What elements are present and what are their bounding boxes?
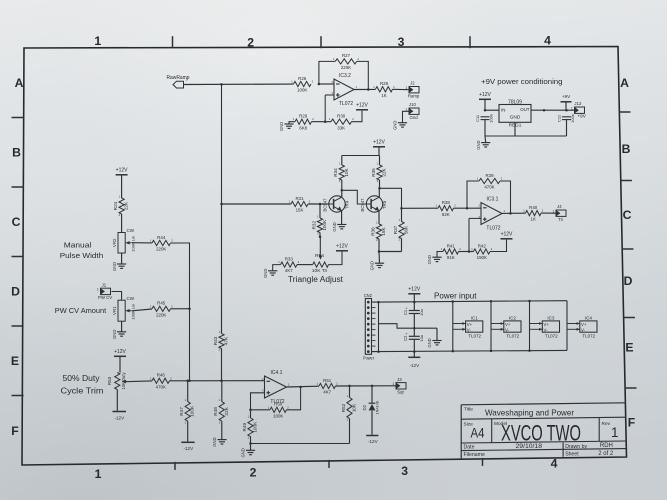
IC block IC2 TL072 — [504, 316, 521, 339]
junction — [299, 386, 302, 389]
potentiometer VR1 — [112, 296, 136, 321]
svg-text:-12V: -12V — [114, 415, 125, 420]
column labels bottom — [95, 457, 558, 481]
wire — [121, 321, 123, 332]
power +9V — [561, 94, 572, 102]
svg-text:J4: J4 — [557, 204, 562, 209]
svg-text:470K: 470K — [156, 384, 166, 389]
svg-text:R24: R24 — [113, 201, 118, 210]
wire — [312, 121, 332, 123]
power +12V — [408, 287, 421, 294]
resistor R34 — [333, 161, 349, 183]
svg-text:GND: GND — [510, 115, 521, 121]
svg-text:R47: R47 — [179, 407, 184, 416]
junction — [377, 350, 380, 353]
resistor R36 — [370, 220, 386, 242]
wire — [342, 190, 366, 204]
node RawRamp — [167, 75, 190, 88]
resistor R27 — [333, 53, 359, 70]
wire — [500, 181, 511, 213]
svg-text:10K: 10K — [352, 403, 357, 412]
wire — [484, 120, 486, 136]
resistor R44 — [150, 235, 174, 252]
wire — [468, 218, 470, 251]
svg-text:Drawn by: Drawn by — [565, 444, 587, 450]
resistor R28 — [373, 81, 395, 98]
wire R44 to bus — [171, 243, 190, 309]
ground — [427, 255, 441, 264]
svg-text:R44: R44 — [157, 235, 166, 240]
power -12V — [181, 442, 194, 451]
wire — [187, 381, 189, 402]
resistor R35 — [371, 161, 387, 183]
svg-text:J2: J2 — [410, 81, 415, 86]
wire — [352, 111, 363, 122]
svg-text:R54: R54 — [315, 253, 324, 259]
wire — [378, 211, 380, 224]
svg-text:R29: R29 — [299, 114, 308, 119]
wire — [413, 294, 415, 302]
wire — [308, 203, 329, 205]
resistor R30 — [329, 114, 355, 131]
power +12V — [501, 232, 514, 239]
svg-text:R42: R42 — [478, 243, 487, 248]
svg-text:IC3: IC3 — [547, 316, 555, 321]
wire — [413, 314, 415, 337]
svg-text:R35: R35 — [371, 168, 376, 177]
svg-text:Title: Title — [464, 407, 473, 413]
svg-text:IC1: IC1 — [471, 316, 479, 321]
svg-text:Manual: Manual — [64, 241, 92, 250]
junction — [468, 250, 471, 253]
wire — [116, 390, 118, 411]
wire — [349, 386, 351, 398]
wire — [170, 380, 265, 382]
wire — [341, 180, 343, 190]
svg-text:-12V: -12V — [183, 446, 194, 451]
junction — [377, 301, 380, 304]
wire — [119, 356, 121, 372]
svg-text:GND: GND — [476, 140, 481, 149]
svg-text:1: 1 — [95, 467, 102, 481]
svg-text:F: F — [11, 424, 18, 438]
wire — [222, 203, 292, 205]
svg-text:78L09: 78L09 — [508, 100, 522, 106]
wire — [401, 208, 403, 221]
connector J10 Gnd — [406, 102, 419, 120]
junction — [188, 380, 191, 383]
title block — [461, 403, 626, 460]
wire IC4 power vertical — [566, 301, 568, 351]
ground — [112, 330, 126, 339]
wire — [184, 83, 294, 85]
svg-text:D: D — [624, 274, 633, 288]
svg-text:4: 4 — [551, 457, 558, 471]
svg-text:R45: R45 — [157, 301, 166, 306]
svg-text:C: C — [623, 208, 632, 222]
wire CN2 pin stubs — [372, 302, 376, 352]
wire — [341, 211, 343, 224]
svg-text:100K: 100K — [253, 421, 258, 433]
resistor R42 — [471, 243, 493, 260]
wire — [319, 204, 321, 218]
op-amp IC3.2 — [331, 73, 357, 107]
diode D2 — [362, 401, 379, 415]
resistor R39 — [477, 173, 503, 190]
wire — [221, 204, 223, 334]
svg-text:100K: 100K — [190, 405, 195, 417]
junction — [220, 203, 223, 206]
svg-text:220K: 220K — [341, 65, 351, 70]
tick marks top border — [173, 36, 471, 48]
svg-text:PW CV Amount: PW CV Amount — [55, 306, 107, 315]
svg-text:Filename: Filename — [464, 452, 485, 458]
svg-text:56K: 56K — [404, 225, 409, 234]
wire — [566, 120, 568, 136]
wire trimmer wiper — [319, 237, 321, 258]
ground — [241, 448, 255, 457]
svg-text:E: E — [625, 340, 633, 354]
svg-text:2: 2 — [247, 36, 254, 50]
junction — [528, 349, 531, 352]
svg-text:R33: R33 — [285, 256, 294, 261]
wire — [132, 309, 152, 311]
svg-text:100n: 100n — [488, 114, 493, 123]
wire — [401, 239, 403, 252]
svg-text:470K: 470K — [484, 185, 494, 190]
power -12V — [408, 357, 420, 368]
transistor TR5 — [360, 196, 387, 212]
svg-text:V-: V- — [505, 328, 510, 333]
svg-text:220K: 220K — [156, 247, 166, 252]
svg-text:10u: 10u — [419, 309, 424, 316]
power +12V — [479, 92, 492, 99]
junction — [413, 327, 416, 330]
wire +12V rail — [372, 301, 568, 302]
junction — [466, 207, 469, 210]
wire — [250, 444, 252, 451]
wire — [371, 411, 373, 435]
svg-text:R53: R53 — [107, 376, 112, 385]
svg-text:R50: R50 — [274, 402, 283, 407]
wire — [187, 421, 189, 441]
resistor R37 — [393, 218, 409, 242]
svg-text:1K: 1K — [381, 93, 386, 98]
svg-text:10K Tri: 10K Tri — [312, 268, 328, 274]
resistor R24 — [113, 194, 129, 217]
svg-text:+12V: +12V — [373, 140, 385, 146]
wire — [393, 88, 410, 90]
wire — [467, 181, 479, 208]
junction — [400, 207, 403, 210]
wire — [130, 380, 153, 383]
wire — [379, 251, 402, 253]
trimmer R53 — [107, 371, 126, 389]
wire vertical bus from RawRamp junction — [221, 84, 223, 204]
svg-text:TL072: TL072 — [339, 101, 353, 107]
svg-text:D: D — [11, 284, 20, 298]
svg-text:TL072: TL072 — [545, 333, 558, 338]
svg-text:BC547: BC547 — [360, 198, 365, 212]
wire — [319, 61, 335, 84]
svg-text:1: 1 — [406, 86, 408, 90]
wire — [336, 385, 397, 387]
wire — [371, 386, 373, 403]
ground — [263, 269, 277, 278]
svg-text:C12: C12 — [556, 114, 561, 122]
capacitor C2 — [403, 332, 424, 342]
regulator REG1 78L09 — [499, 100, 531, 128]
svg-text:BC547: BC547 — [322, 198, 327, 212]
wire IC1 power vertical — [452, 302, 454, 352]
svg-text:100K Lin: 100K Lin — [131, 236, 136, 252]
wire — [413, 339, 415, 351]
svg-text:R43: R43 — [213, 336, 218, 345]
power +12V — [356, 103, 369, 110]
wire — [132, 242, 152, 244]
wire — [121, 253, 123, 264]
svg-text:4: 4 — [544, 33, 551, 47]
wire — [297, 264, 313, 266]
power +12V — [373, 140, 386, 147]
junction — [186, 380, 189, 383]
wire IC4 V+ V- stubs — [567, 322, 580, 331]
svg-text:R41: R41 — [447, 243, 456, 248]
wire — [502, 212, 526, 214]
junction — [490, 350, 493, 353]
wire IC1 V+ V- stubs — [453, 322, 466, 331]
svg-text:R52: R52 — [341, 403, 346, 412]
svg-text:+12V: +12V — [114, 349, 126, 355]
svg-text:F: F — [628, 415, 635, 429]
wire bus to duty net — [189, 309, 191, 381]
svg-text:1: 1 — [94, 34, 101, 48]
resistor R49 — [242, 414, 258, 439]
connector J3 Sqr — [393, 377, 406, 395]
svg-text:R39: R39 — [485, 173, 494, 178]
svg-text:-12V: -12V — [368, 439, 379, 444]
ground — [332, 222, 346, 231]
svg-text:J12: J12 — [574, 101, 582, 106]
svg-text:Sqr: Sqr — [397, 390, 404, 395]
svg-text:B: B — [12, 145, 21, 159]
wire — [514, 122, 516, 136]
svg-text:OUT: OUT — [520, 107, 530, 112]
svg-text:C11: C11 — [475, 114, 480, 122]
tick marks bottom border — [175, 458, 483, 470]
wire — [413, 302, 415, 310]
junction — [220, 380, 223, 383]
capacitor C12 — [556, 114, 575, 123]
svg-text:1K: 1K — [531, 217, 536, 222]
svg-text:150K: 150K — [477, 255, 487, 260]
svg-text:R46: R46 — [157, 373, 166, 378]
svg-text:1: 1 — [553, 209, 555, 213]
svg-text:TR4: TR4 — [345, 200, 350, 209]
power +12V — [336, 244, 349, 251]
svg-text:220K: 220K — [156, 312, 166, 317]
svg-text:V+: V+ — [505, 322, 511, 327]
junction — [341, 189, 344, 192]
wire — [251, 393, 265, 410]
svg-text:R51: R51 — [323, 378, 332, 383]
svg-text:Triangle Adjust: Triangle Adjust — [288, 275, 344, 284]
svg-text:22K: 22K — [224, 406, 229, 415]
wire IC3 V+ V- stubs — [530, 322, 543, 331]
svg-text:IC3.2: IC3.2 — [339, 73, 351, 79]
svg-text:15K: 15K — [296, 208, 304, 213]
svg-text:+12V: +12V — [356, 103, 368, 109]
junction — [348, 385, 351, 388]
wire — [484, 99, 486, 110]
svg-text:TL072: TL072 — [506, 333, 519, 338]
resistor R48 — [213, 398, 229, 424]
svg-text:C1: C1 — [403, 309, 408, 315]
junction — [490, 300, 493, 303]
wire — [221, 349, 223, 381]
wire — [531, 109, 575, 111]
wire +12V rail to R34/R35 — [342, 155, 380, 157]
wire — [121, 175, 123, 198]
wire — [341, 156, 343, 166]
svg-text:100K: 100K — [322, 219, 327, 231]
svg-text:V-: V- — [467, 328, 472, 333]
wire — [324, 95, 326, 122]
svg-text:22K: 22K — [382, 167, 387, 176]
wire ground rail of regulator — [485, 135, 567, 137]
wire — [469, 217, 481, 219]
svg-text:TL072: TL072 — [486, 226, 500, 232]
power +12V — [116, 168, 129, 175]
svg-text:1: 1 — [611, 425, 619, 440]
svg-text:R31: R31 — [295, 196, 304, 201]
wire — [459, 251, 470, 253]
junction — [220, 83, 223, 86]
wire — [289, 122, 295, 124]
tick marks right border — [619, 112, 637, 388]
wire — [349, 419, 351, 444]
ground — [427, 338, 441, 347]
svg-text:GND: GND — [241, 448, 246, 457]
wire — [436, 328, 438, 340]
op-amp IC3.1 — [478, 196, 505, 231]
wire — [287, 385, 320, 388]
connector J4 Tri — [553, 204, 566, 222]
svg-text:CN2: CN2 — [364, 293, 373, 298]
svg-text:Ramp: Ramp — [408, 94, 420, 99]
svg-text:50% Duty: 50% Duty — [63, 374, 100, 383]
svg-text:6K8: 6K8 — [299, 125, 307, 130]
power -12V — [113, 412, 127, 421]
wire — [319, 83, 334, 85]
svg-text:10u: 10u — [419, 335, 424, 342]
wire — [354, 88, 376, 90]
svg-text:C: C — [12, 215, 21, 229]
node Manual Pulse Width label — [60, 241, 104, 261]
svg-text:RDH: RDH — [600, 443, 613, 449]
svg-text:PW CV: PW CV — [98, 295, 112, 300]
svg-text:A4: A4 — [471, 425, 485, 440]
svg-text:4K7: 4K7 — [323, 390, 331, 395]
svg-text:Sheet: Sheet — [565, 451, 579, 457]
svg-text:1: 1 — [186, 77, 188, 81]
ground — [370, 261, 384, 270]
connector J2 Ramp — [406, 81, 420, 99]
wire — [329, 252, 343, 265]
svg-text:1: 1 — [393, 382, 395, 386]
svg-text:J3: J3 — [397, 377, 402, 382]
wire — [378, 252, 381, 264]
junction — [324, 120, 327, 123]
junction — [509, 212, 512, 215]
op-amp IC4.1 — [262, 370, 290, 405]
wire — [378, 147, 380, 156]
svg-text:R32: R32 — [311, 221, 316, 230]
wire — [565, 102, 567, 110]
svg-text:R30: R30 — [337, 114, 346, 119]
svg-text:VR1: VR1 — [112, 306, 117, 315]
junction — [318, 83, 321, 86]
svg-text:R48: R48 — [213, 407, 218, 416]
svg-text:R38: R38 — [442, 200, 451, 205]
junction — [371, 385, 374, 388]
wire IC3 power vertical — [529, 301, 531, 351]
resistor R52 — [341, 394, 357, 422]
svg-text:TL072: TL072 — [582, 333, 595, 338]
svg-text:TR5: TR5 — [382, 200, 387, 209]
wire — [379, 324, 438, 329]
wire — [541, 212, 556, 214]
wire — [273, 265, 281, 271]
svg-text:+12V: +12V — [408, 287, 420, 293]
svg-text:GND: GND — [370, 261, 375, 270]
resistor R38 — [436, 200, 457, 217]
potentiometer VR2 — [112, 228, 136, 253]
svg-text:R37: R37 — [393, 225, 398, 234]
ground — [393, 121, 407, 130]
wire — [251, 409, 271, 411]
svg-text:29/10/18: 29/10/18 — [516, 444, 543, 450]
wire — [413, 352, 415, 358]
svg-text:R27: R27 — [342, 53, 351, 58]
wire feedback bottom — [251, 443, 350, 445]
svg-text:+9V power conditioning: +9V power conditioning — [481, 77, 563, 86]
wire — [469, 251, 474, 253]
resistor R51 — [317, 378, 339, 395]
svg-text:IC4.1: IC4.1 — [271, 370, 283, 376]
svg-text:GND: GND — [393, 121, 398, 130]
svg-text:CW: CW — [127, 296, 135, 301]
ground — [212, 437, 226, 446]
svg-text:100K Lin: 100K Lin — [131, 304, 136, 320]
svg-text:J1: J1 — [102, 282, 107, 287]
transistor TR4 — [322, 196, 349, 212]
capacitor C11 — [475, 114, 494, 123]
svg-text:V+: V+ — [581, 322, 587, 327]
svg-text:V-: V- — [581, 328, 586, 333]
junction — [378, 250, 381, 253]
svg-text:+12V: +12V — [116, 168, 128, 174]
junction — [484, 109, 487, 112]
resistor R32 — [311, 214, 327, 235]
svg-text:GND: GND — [112, 330, 117, 339]
svg-text:Waveshaping and Power: Waveshaping and Power — [485, 409, 574, 418]
wire — [403, 111, 410, 122]
svg-text:R28: R28 — [380, 81, 389, 86]
resistor R45 — [150, 301, 174, 318]
resistor R29 — [293, 114, 315, 131]
capacitor C1 — [403, 306, 424, 316]
